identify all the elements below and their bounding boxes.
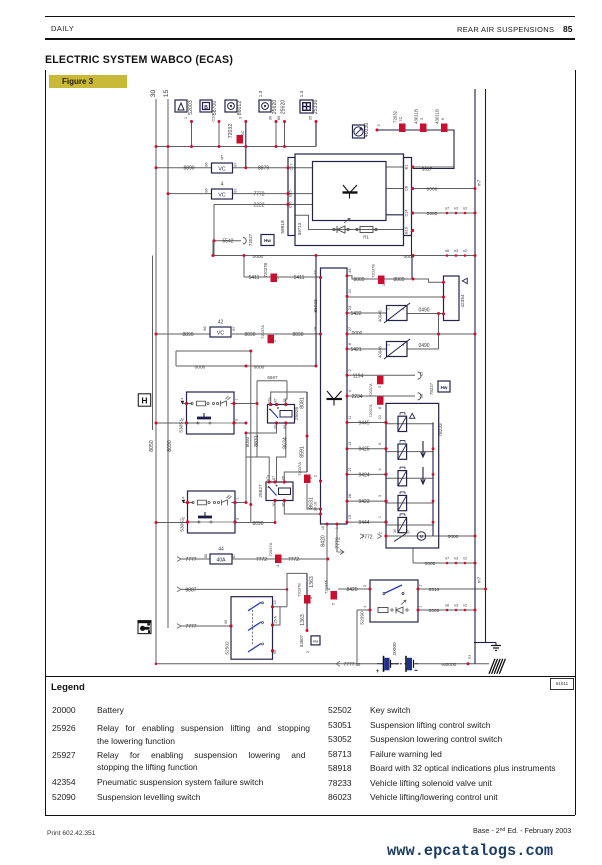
svg-text:4: 4	[348, 390, 352, 392]
svg-text:1363: 1363	[309, 576, 315, 588]
svg-text:0000: 0000	[427, 211, 438, 217]
svg-text:10: 10	[378, 415, 382, 419]
svg-text:72037A: 72037A	[297, 462, 302, 476]
svg-text:1: 1	[419, 605, 423, 607]
svg-text:0490: 0490	[418, 343, 429, 349]
svg-text:n7: n7	[445, 207, 449, 211]
svg-text:n2: n2	[463, 604, 467, 608]
svg-text:+: +	[376, 668, 380, 675]
svg-text:30: 30	[274, 425, 278, 429]
svg-text:20000: 20000	[392, 642, 398, 656]
svg-text:3C: 3C	[240, 130, 245, 135]
svg-text:8009: 8009	[393, 277, 404, 283]
svg-text:52090: 52090	[360, 611, 366, 625]
svg-text:4: 4	[275, 564, 280, 567]
svg-text:96: 96	[441, 662, 446, 667]
svg-text:13: 13	[348, 442, 352, 446]
svg-text:3: 3	[237, 116, 242, 119]
svg-text:8009: 8009	[353, 277, 364, 283]
svg-text:72037A: 72037A	[369, 404, 373, 418]
svg-text:78233: 78233	[438, 423, 444, 437]
svg-text:86: 86	[205, 162, 209, 166]
svg-text:52502: 52502	[225, 641, 231, 655]
svg-text:86: 86	[281, 503, 285, 507]
svg-text:9424: 9424	[358, 472, 369, 478]
svg-text:1194: 1194	[353, 373, 364, 379]
svg-text:43011B: 43011B	[435, 109, 440, 124]
svg-text:72037B: 72037B	[263, 263, 268, 278]
svg-text:0000: 0000	[448, 534, 459, 540]
svg-text:0490: 0490	[418, 308, 429, 314]
svg-text:n3: n3	[454, 557, 458, 561]
svg-text:87: 87	[272, 476, 276, 480]
svg-text:42: 42	[218, 320, 224, 326]
svg-text:n1: n1	[467, 654, 472, 659]
svg-text:72032: 72032	[228, 124, 234, 139]
svg-text:M: M	[420, 534, 424, 539]
svg-text:42354: 42354	[460, 294, 466, 308]
svg-text:15: 15	[348, 515, 352, 519]
svg-text:n3: n3	[454, 249, 458, 253]
svg-text:8090: 8090	[167, 440, 173, 452]
svg-text:1: 1	[387, 344, 391, 346]
svg-text:C14: C14	[405, 210, 409, 217]
svg-text:40046: 40046	[377, 346, 382, 358]
svg-text:5542: 5542	[222, 239, 233, 245]
svg-text:15: 15	[163, 90, 170, 98]
svg-text:66: 66	[356, 662, 361, 667]
svg-text:2234: 2234	[351, 394, 362, 400]
svg-text:8420: 8420	[346, 587, 357, 593]
svg-text:86: 86	[203, 326, 207, 330]
svg-text:Hw: Hw	[264, 238, 271, 243]
svg-text:85: 85	[204, 554, 208, 558]
svg-text:8090: 8090	[244, 332, 255, 338]
svg-text:9425: 9425	[358, 447, 369, 453]
svg-text:44: 44	[218, 547, 224, 553]
svg-text:0000: 0000	[427, 187, 438, 193]
svg-text:7772: 7772	[336, 537, 342, 549]
svg-text:8: 8	[348, 343, 352, 345]
svg-text:VC: VC	[217, 330, 224, 336]
svg-text:86023: 86023	[313, 299, 319, 313]
svg-text:1: 1	[378, 516, 382, 518]
svg-text:9445: 9445	[358, 421, 369, 427]
svg-text:9444: 9444	[358, 520, 369, 526]
svg-text:87: 87	[232, 326, 236, 330]
svg-text:43011B: 43011B	[414, 109, 419, 124]
svg-text:22: 22	[314, 270, 318, 274]
svg-text:58918: 58918	[280, 220, 286, 234]
svg-text:2: 2	[182, 517, 186, 519]
svg-text:8510: 8510	[429, 587, 440, 593]
svg-text:n2: n2	[463, 207, 467, 211]
svg-text:C8: C8	[405, 186, 409, 191]
svg-text:18: 18	[419, 393, 424, 398]
svg-text:1.3: 1.3	[258, 90, 263, 97]
svg-text:8887: 8887	[185, 588, 196, 594]
svg-text:87a: 87a	[266, 475, 270, 481]
svg-text:87a: 87a	[268, 398, 272, 404]
svg-text:52003: 52003	[188, 100, 194, 115]
svg-text:VC: VC	[218, 166, 225, 172]
svg-text:8831: 8831	[254, 435, 260, 447]
svg-text:3: 3	[363, 585, 367, 587]
svg-text:23: 23	[348, 306, 352, 310]
svg-text:28: 28	[348, 494, 352, 498]
svg-text:35: 35	[308, 115, 313, 120]
svg-text:9423: 9423	[358, 499, 369, 505]
svg-text:2: 2	[401, 308, 405, 310]
svg-text:21: 21	[348, 467, 352, 471]
svg-text:30: 30	[272, 503, 276, 507]
svg-text:58700: 58700	[212, 101, 218, 116]
svg-text:0000: 0000	[446, 662, 457, 668]
svg-text:3: 3	[377, 385, 382, 388]
svg-text:86012: 86012	[237, 101, 243, 116]
svg-text:8591: 8591	[300, 446, 306, 458]
svg-text:4: 4	[221, 182, 224, 188]
svg-text:30: 30	[224, 620, 228, 624]
svg-text:5411: 5411	[294, 275, 305, 281]
svg-text:8420: 8420	[321, 535, 327, 547]
svg-text:8: 8	[377, 406, 382, 409]
svg-text:8634: 8634	[283, 437, 289, 449]
svg-text:C17: C17	[290, 164, 294, 171]
svg-text:B19: B19	[405, 227, 409, 234]
svg-text:25620: 25620	[281, 100, 287, 115]
svg-text:7777: 7777	[343, 662, 354, 668]
svg-text:n2: n2	[463, 557, 467, 561]
svg-text:Hw: Hw	[441, 385, 448, 390]
svg-text:7772: 7772	[253, 191, 264, 197]
svg-text:72037A: 72037A	[268, 542, 273, 556]
svg-text:2: 2	[379, 532, 383, 534]
svg-text:4: 4	[181, 397, 185, 399]
svg-text:4: 4	[378, 468, 382, 470]
svg-text:87: 87	[234, 162, 238, 166]
svg-text:1: 1	[235, 398, 239, 400]
svg-text:30: 30	[150, 90, 157, 98]
svg-text:78227: 78227	[429, 382, 434, 395]
svg-text:10: 10	[321, 526, 325, 530]
svg-text:7777: 7777	[185, 557, 196, 563]
svg-text:H: H	[141, 396, 147, 406]
svg-text:n6: n6	[445, 249, 449, 253]
svg-text:m7: m7	[477, 576, 482, 583]
svg-text:7772: 7772	[361, 535, 372, 541]
svg-text:19: 19	[314, 327, 318, 331]
svg-text:2222: 2222	[253, 202, 264, 208]
svg-text:72037A: 72037A	[369, 383, 373, 397]
svg-text:6: 6	[440, 117, 445, 120]
svg-text:0000: 0000	[253, 254, 264, 260]
svg-text:72037B: 72037B	[297, 583, 302, 597]
svg-text:86: 86	[283, 425, 287, 429]
svg-text:58713: 58713	[297, 222, 302, 235]
svg-text:8890: 8890	[182, 332, 193, 338]
svg-text:8631: 8631	[309, 497, 315, 509]
svg-text:m7: m7	[477, 179, 482, 186]
svg-text:5617: 5617	[422, 166, 433, 172]
svg-text:1: 1	[335, 527, 339, 529]
svg-text:8879: 8879	[258, 166, 269, 172]
svg-text:53507: 53507	[299, 634, 304, 647]
svg-text:85: 85	[281, 476, 285, 480]
svg-text:C16: C16	[289, 202, 293, 209]
svg-text:40046: 40046	[377, 310, 382, 322]
svg-text:2: 2	[401, 344, 405, 346]
svg-text:8890: 8890	[183, 166, 194, 172]
svg-text:0000: 0000	[254, 364, 265, 370]
svg-text:4: 4	[363, 605, 367, 607]
svg-text:3: 3	[235, 419, 239, 421]
svg-text:2: 2	[181, 418, 185, 420]
svg-text:2: 2	[305, 650, 310, 653]
svg-text:40A: 40A	[217, 558, 227, 564]
svg-text:15: 15	[273, 600, 277, 604]
svg-text:B: B	[204, 105, 208, 111]
svg-text:5421: 5421	[350, 347, 361, 353]
svg-text:7C: 7C	[398, 116, 403, 121]
svg-text:C20: C20	[211, 114, 216, 122]
svg-text:2: 2	[419, 584, 423, 586]
svg-text:5422: 5422	[350, 311, 361, 317]
svg-text:25927: 25927	[258, 484, 264, 498]
svg-text:87: 87	[274, 399, 278, 403]
svg-text:VC: VC	[218, 192, 225, 198]
svg-text:30: 30	[268, 115, 273, 120]
svg-text:3: 3	[378, 495, 382, 497]
svg-text:3: 3	[236, 518, 240, 520]
svg-text:0000: 0000	[352, 330, 363, 336]
svg-text:24: 24	[348, 289, 352, 293]
svg-text:8050: 8050	[149, 440, 155, 452]
svg-text:72037B: 72037B	[371, 264, 376, 278]
svg-text:1.3: 1.3	[299, 90, 304, 97]
svg-text:72037A: 72037A	[260, 325, 265, 339]
svg-text:86: 86	[276, 115, 281, 120]
svg-text:53052: 53052	[180, 518, 186, 532]
svg-text:2: 2	[314, 475, 318, 477]
svg-text:15: 15	[419, 371, 424, 376]
svg-text:n2: n2	[463, 249, 467, 253]
svg-text:15/A: 15/A	[274, 616, 278, 624]
svg-text:72027: 72027	[248, 233, 253, 246]
svg-text:50: 50	[273, 650, 277, 654]
svg-text:87: 87	[407, 530, 411, 534]
svg-text:87: 87	[234, 188, 238, 192]
svg-text:5411: 5411	[249, 275, 260, 281]
svg-text:4: 4	[182, 496, 186, 498]
svg-text:B15: B15	[289, 190, 293, 196]
svg-text:1: 1	[183, 116, 188, 119]
svg-text:B1: B1	[405, 165, 409, 170]
svg-text:7777: 7777	[185, 624, 196, 630]
svg-text:R1: R1	[363, 235, 369, 240]
svg-text:0000: 0000	[195, 364, 206, 370]
svg-text:40030: 40030	[364, 123, 370, 138]
svg-text:n6: n6	[445, 604, 449, 608]
svg-text:Hw: Hw	[313, 640, 319, 644]
svg-text:8090: 8090	[252, 521, 263, 527]
svg-text:0000: 0000	[429, 608, 440, 614]
svg-text:86: 86	[205, 188, 209, 192]
svg-text:53051: 53051	[179, 419, 185, 433]
svg-text:72032: 72032	[393, 110, 398, 123]
svg-text:85: 85	[283, 399, 287, 403]
svg-text:n3: n3	[454, 207, 458, 211]
svg-text:6667: 6667	[267, 375, 278, 380]
svg-text:30: 30	[393, 529, 397, 533]
svg-text:n3: n3	[454, 604, 458, 608]
svg-text:72037A: 72037A	[324, 580, 329, 594]
svg-text:1: 1	[236, 497, 240, 499]
svg-text:6: 6	[378, 443, 382, 445]
svg-text:7772: 7772	[256, 557, 267, 563]
svg-text:3: 3	[419, 117, 424, 120]
svg-text:5: 5	[331, 602, 336, 605]
svg-text:33: 33	[348, 269, 352, 273]
svg-text:2: 2	[348, 369, 352, 371]
svg-text:8090: 8090	[292, 332, 303, 338]
svg-text:n7: n7	[445, 557, 449, 561]
svg-text:1: 1	[387, 308, 391, 310]
svg-text:5: 5	[221, 156, 224, 162]
svg-text:0000: 0000	[404, 254, 415, 260]
svg-text:8050: 8050	[245, 436, 250, 447]
svg-text:25620: 25620	[272, 100, 278, 115]
svg-text:25336: 25336	[313, 100, 319, 115]
svg-text:8081: 8081	[300, 397, 306, 409]
svg-text:1363: 1363	[300, 614, 306, 626]
svg-text:7772: 7772	[288, 557, 299, 563]
svg-text:87: 87	[232, 554, 236, 558]
svg-text:11: 11	[348, 416, 352, 420]
svg-text:3: 3	[376, 124, 381, 127]
svg-text:0000: 0000	[425, 561, 436, 567]
